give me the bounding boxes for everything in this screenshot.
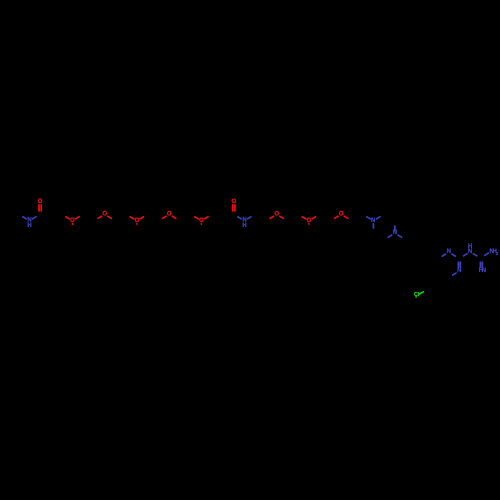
svg-text:N: N [468, 249, 472, 255]
wire: N2-CH2 propyl chain bond (half) [398, 235, 401, 237]
wire: C2=N double bond (half, vertical) [458, 262, 460, 267]
node O ether O5 of PEG chain [195, 217, 208, 225]
node O ether O1 of PEG chain [66, 217, 79, 225]
wire: C=NH double bond (half, vertical) [480, 262, 482, 267]
svg-text:O: O [38, 199, 43, 205]
node H-N imino nitrogen label [479, 268, 486, 274]
svg-text:O: O [167, 211, 172, 217]
svg-text:H: H [242, 223, 246, 229]
node O ether O3 of PEG chain [130, 217, 143, 225]
node O ether O2 of PEG chain [98, 211, 111, 218]
node N-H amide nitrogen (left amide) [27, 218, 31, 229]
node O ether O8 of PEG chain [335, 211, 348, 218]
wire: N-C(aryl ipso) bond (half) [453, 273, 456, 275]
wire: methyl CH3-N bond (half) [23, 217, 26, 219]
svg-text:N: N [457, 268, 461, 274]
svg-text:O: O [231, 199, 236, 205]
svg-text:H: H [27, 223, 31, 229]
wire: piperazine ring bond N1-C (vertical, half) [372, 224, 374, 228]
wire: chain CH2-N1 piperazine bond (half) [367, 217, 370, 219]
node N-H2 amino nitrogen [490, 249, 499, 256]
node N1 piperazine nitrogen [371, 218, 375, 224]
wire: N3-C2 bond (half) [452, 254, 455, 256]
wire: piperazine ring bond N1-C (up-right, half) [377, 217, 380, 219]
node O ether O6 of PEG chain [270, 211, 283, 218]
node N-H amide nitrogen (middle amide) [242, 218, 246, 229]
node N imine nitrogen N3 [447, 249, 451, 255]
svg-text:N: N [393, 230, 397, 236]
wire: C(=O)-N bond (half) [238, 217, 241, 219]
node O ether O4 of PEG chain [163, 211, 176, 218]
node O ether O7 of PEG chain [302, 217, 315, 225]
wire: piperazine ring bond N2-C (down-left, half) [388, 235, 391, 237]
node N2 piperazine nitrogen [393, 230, 397, 236]
svg-text:O: O [274, 211, 279, 217]
wire: piperazine ring bond N2-C (vertical, half) [394, 226, 396, 230]
node O carbonyl oxygen (middle amide C=O) [231, 199, 236, 211]
svg-text:O: O [102, 211, 107, 217]
wire: C-NH2 bond (half) [485, 253, 489, 255]
node O carbonyl oxygen (left amide C=O) [38, 199, 43, 211]
wire: C(aryl)-Cl bond (half) [420, 292, 424, 294]
wire: NH-C(guanidine) bond (half) [473, 254, 476, 256]
wire: chain C-N imine bond (half) [442, 254, 445, 256]
svg-text:N: N [371, 218, 375, 224]
svg-text:O: O [339, 211, 344, 217]
wire: N-CH2 bond (half) [248, 217, 251, 219]
node N-H bridge nitrogen [468, 244, 472, 255]
node N aryl imine nitrogen [457, 268, 461, 274]
svg-text:N: N [447, 249, 451, 255]
node Cl chlorine substituent [414, 292, 420, 298]
wire: N-C(=O) bond (half) [33, 217, 36, 219]
svg-text:N: N [482, 268, 486, 274]
wire: NH-C2 bond (half) [464, 254, 467, 256]
